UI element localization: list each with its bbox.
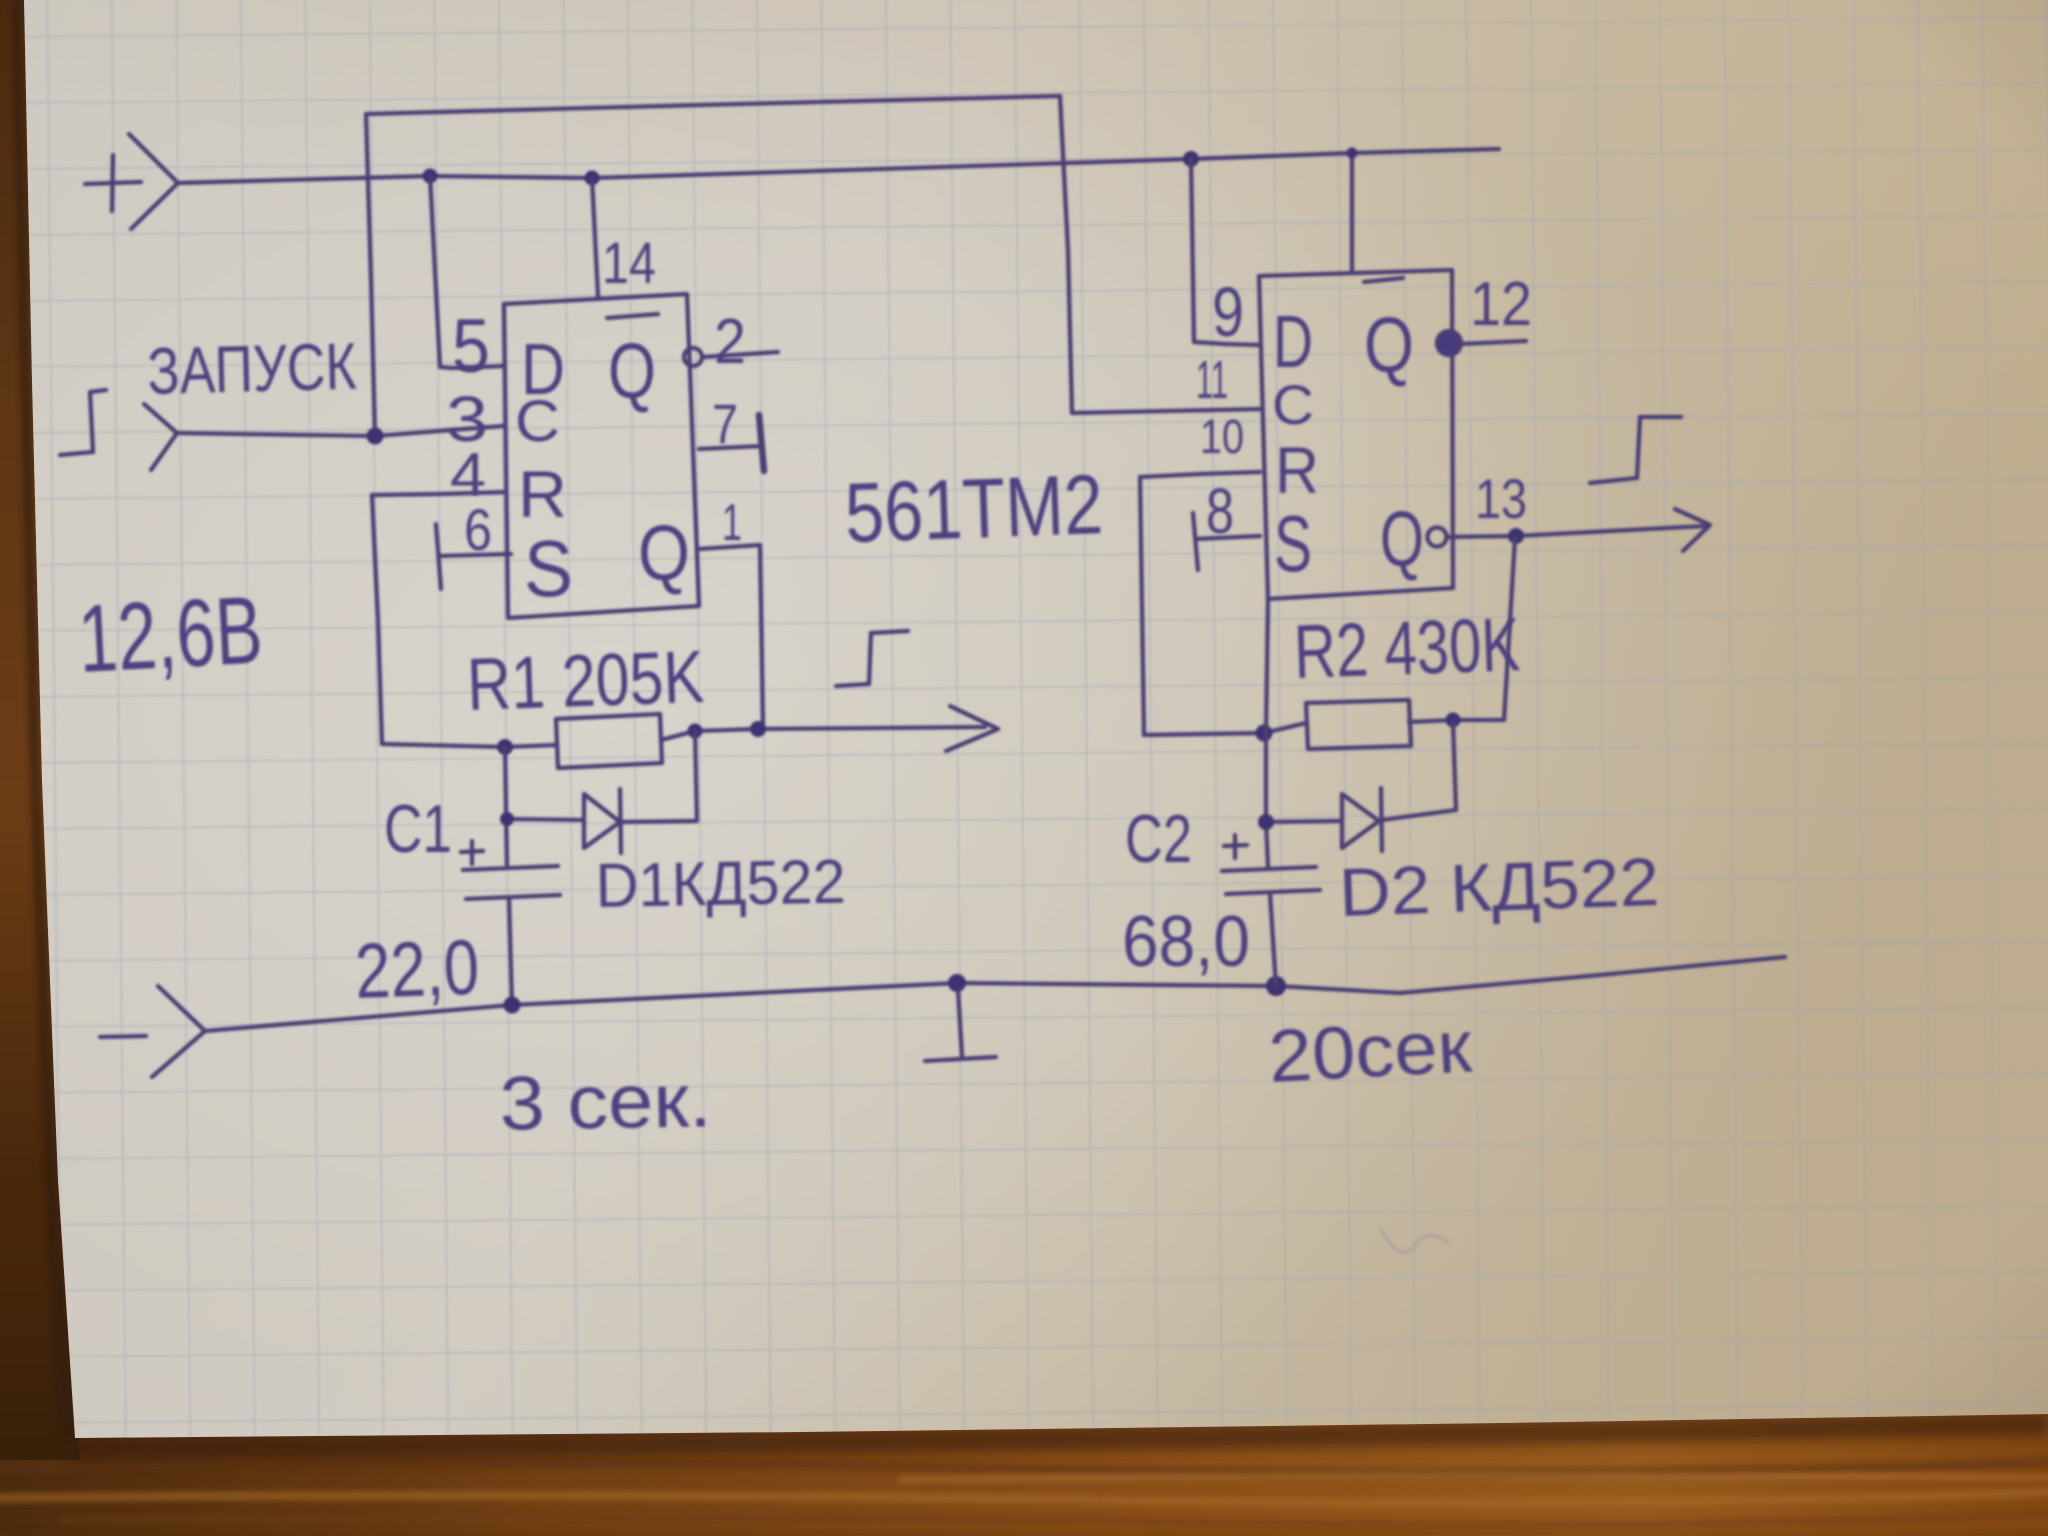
plus terminal symbol — [85, 134, 178, 229]
wire +V rail — [178, 149, 1499, 183]
output 1 arrow — [946, 706, 998, 751]
node junction +V / pin14 — [585, 171, 600, 186]
pin 9 wire U2 D input — [1191, 159, 1259, 345]
svg-text:11: 11 — [1196, 350, 1228, 410]
shadow along left paper edge — [12, 0, 73, 1438]
capacitor C2 top wire — [1266, 733, 1268, 866]
svg-text:12: 12 — [1470, 270, 1532, 339]
node small junction +V/U2 top — [1347, 148, 1358, 159]
output 1 step-pulse symbol — [836, 631, 908, 686]
svg-text:9: 9 — [1212, 273, 1244, 351]
svg-text:Q: Q — [1364, 301, 1414, 389]
node junction R2/D2 — [1446, 713, 1461, 728]
svg-text:13: 13 — [1475, 467, 1527, 530]
node junction D2/C2 — [1258, 814, 1274, 830]
wire Q2 down to R2 right — [1504, 538, 1515, 720]
resistor R1 body — [556, 714, 662, 768]
node junction R1/D1 — [688, 724, 703, 739]
svg-text:D1КД522: D1КД522 — [595, 848, 846, 921]
resistor R1 left wire — [382, 744, 556, 747]
svg-text:ЗАПУСК: ЗАПУСК — [146, 329, 357, 408]
wire R2 left leg down — [1140, 477, 1144, 735]
svg-text:D: D — [1273, 300, 1313, 383]
node junction rail/ground — [948, 974, 966, 992]
C2 polarity plus — [1224, 835, 1247, 858]
svg-text:C: C — [1272, 373, 1314, 436]
wire R-pin down to timing node — [372, 495, 382, 744]
pin 14 wire U2 — [1350, 153, 1354, 273]
wood grain streaks bottom band — [0, 1462, 2048, 1534]
stray pencil mark — [1380, 1228, 1448, 1252]
svg-text:1: 1 — [722, 494, 742, 552]
diode D1 triangle — [584, 794, 620, 848]
capacitor C2 bottom wire — [1270, 894, 1276, 986]
svg-text:5: 5 — [452, 304, 490, 389]
svg-text:Q: Q — [1380, 495, 1424, 583]
pin 13 wire U2 Q output — [1447, 526, 1705, 537]
svg-text:D2 КД522: D2 КД522 — [1338, 844, 1660, 931]
diode D2 cathode bar — [1381, 788, 1382, 851]
handwritten labels — [76, 231, 1661, 1147]
wire top link C1-to-C2 clock net — [366, 96, 1262, 435]
pin 8 no-connect tick — [1193, 513, 1198, 570]
pin 5 wire U1 D input — [430, 176, 504, 368]
node junction rail/C2 — [1266, 976, 1286, 996]
resistor R2 right wire — [1409, 720, 1504, 722]
capacitor C2 top plate — [1222, 867, 1316, 871]
wire D1 anode tap — [695, 731, 697, 820]
Q-bar overbar U1 — [607, 314, 658, 318]
svg-text:S: S — [1274, 499, 1312, 588]
svg-text:C2: C2 — [1125, 801, 1192, 877]
output 2 step-pulse symbol — [1590, 417, 1681, 483]
warm wash top right — [0, 0, 2048, 900]
svg-text:R2 430K: R2 430K — [1293, 602, 1522, 695]
node junction R2/C2 — [1256, 725, 1273, 742]
wire 0V bottom rail — [205, 957, 1785, 1031]
svg-text:561ТМ2: 561ТМ2 — [843, 457, 1104, 560]
svg-text:12,6В: 12,6В — [76, 576, 265, 692]
ground symbol — [925, 990, 996, 1061]
svg-text:Q: Q — [608, 327, 656, 415]
Q-bar overbar U2 — [1364, 278, 1403, 282]
pin 12 wire U2 — [1461, 341, 1526, 344]
svg-text:6: 6 — [464, 498, 492, 563]
resistor R2 body — [1306, 700, 1411, 749]
svg-text:14: 14 — [602, 231, 656, 296]
resistor R1 right wire — [661, 727, 985, 740]
svg-text:C1: C1 — [384, 791, 452, 867]
flip-flop U2 561TM2 box — [1259, 270, 1453, 599]
capacitor C1 top plate — [463, 866, 558, 870]
pin 1 wire U1 Q output — [699, 545, 763, 729]
wire start signal to pin3 C — [177, 426, 503, 436]
diode D1 cathode bar — [620, 789, 621, 853]
C1 polarity plus — [461, 841, 483, 864]
svg-text:R: R — [1275, 433, 1319, 507]
node junction R1/C1 — [497, 739, 513, 755]
node junction rail/C1 — [504, 997, 521, 1014]
svg-text:8: 8 — [1206, 475, 1234, 547]
svg-text:7: 7 — [712, 392, 738, 455]
svg-text:68,0: 68,0 — [1122, 902, 1250, 982]
pin 7 wire U1 — [699, 446, 763, 449]
wire U2 bottom to R2 — [1266, 599, 1268, 733]
diode D2 triangle — [1342, 794, 1379, 848]
svg-text:Q: Q — [638, 509, 690, 597]
svg-text:S: S — [524, 524, 573, 613]
svg-text:2: 2 — [714, 305, 746, 377]
svg-text:22,0: 22,0 — [354, 923, 481, 1015]
node junction R1/Q1 — [750, 721, 766, 737]
output 2 arrow — [1675, 509, 1710, 551]
svg-text:C: C — [515, 389, 560, 454]
diode D1 anode wire — [507, 819, 584, 820]
node junction D1/C1 — [500, 812, 514, 826]
pin 12 output bubble U2 (inked solid) — [1437, 331, 1461, 355]
diode D1 cathode wire — [621, 821, 697, 822]
minus terminal symbol — [100, 1036, 146, 1037]
pin 10 wire U2 R input — [1140, 472, 1260, 477]
capacitor C1 bottom plate — [466, 895, 560, 899]
capacitor C1 top wire — [505, 747, 507, 868]
capacitor C1 bottom wire — [509, 899, 512, 1005]
minus input arrow — [152, 986, 205, 1077]
pin 4 wire U1 R input — [372, 492, 506, 495]
node junction +V / D1 pull-up — [423, 169, 438, 184]
step-pulse symbol at start input — [60, 390, 106, 455]
left wood strip darkening — [0, 0, 80, 1460]
pin 6 wire U1 S input — [439, 554, 511, 556]
pin 8 wire U2 S input — [1196, 536, 1260, 539]
node junction +V / pin9 — [1183, 151, 1199, 167]
node junction start/top-link — [367, 428, 384, 445]
capacitor C2 bottom plate — [1226, 890, 1320, 894]
pin 6 no-connect tick — [436, 524, 441, 589]
svg-text:20сек: 20сек — [1266, 1004, 1474, 1098]
pin 2 wire U1 — [703, 352, 778, 357]
pin 14 wire U1 — [592, 178, 598, 296]
diode D2 anode wire — [1266, 821, 1342, 822]
node junction Q2/R2 — [1508, 528, 1524, 544]
resistor R2 left wire — [1144, 723, 1306, 735]
diode D2 cathode wire — [1382, 810, 1456, 820]
svg-text:R1 205K: R1 205K — [466, 635, 706, 726]
wire D2 up to R2 — [1453, 722, 1456, 810]
hand-drawn ink — [60, 96, 1785, 1252]
svg-text:10: 10 — [1200, 411, 1244, 464]
flip-flop U1 561TM2 box — [504, 294, 699, 618]
pin 2 output bubble U1 — [684, 348, 702, 366]
contact shadow under paper bottom edge — [70, 1412, 2048, 1460]
start input arrow — [144, 404, 177, 470]
pin 7 end tick — [759, 415, 764, 471]
pin 13 output bubble U2 — [1428, 528, 1447, 547]
svg-text:3 сек.: 3 сек. — [499, 1058, 712, 1147]
svg-text:R: R — [518, 457, 567, 531]
